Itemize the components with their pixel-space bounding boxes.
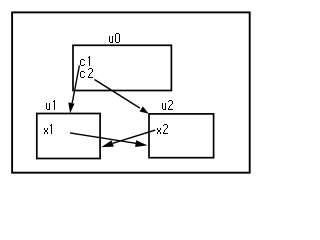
- label u2: [162, 100, 173, 110]
- edge x2 to x1 (wire): [113, 130, 155, 143]
- arrowhead c2 to u2: [140, 106, 149, 113]
- outer border frame: [12, 12, 250, 172]
- label x2: [157, 124, 168, 134]
- edge c2 to u2 (wire): [95, 80, 141, 109]
- edge x1 to x2 (wire): [70, 133, 137, 144]
- block u0 (container box): [73, 45, 171, 90]
- label u0: [109, 33, 120, 43]
- arrowhead c1 to u1: [68, 102, 74, 113]
- block u1: [37, 114, 100, 159]
- block u2: [149, 114, 214, 158]
- arrowhead x1 to x2: [135, 140, 147, 147]
- edge c1 to u1 (wire): [72, 66, 79, 104]
- label u1: [46, 100, 55, 110]
- arrowhead x2 to x1: [101, 140, 114, 147]
- label c1: [80, 56, 90, 66]
- label x1: [44, 124, 52, 134]
- label c2: [80, 68, 93, 78]
